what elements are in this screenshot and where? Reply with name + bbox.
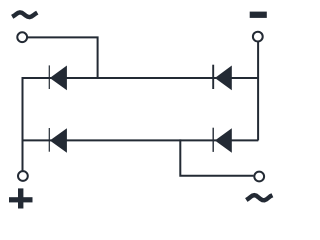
wire minus terminal down to bottom rail [257,42,259,141]
label - (negative output, top-right) [250,12,267,18]
diode D3 cathode bar [48,128,50,152]
terminal minus circle [253,32,263,42]
label ~ (AC input 1, top-left) [12,12,37,17]
diode D4 cathode bar [212,128,214,152]
terminal AC2 circle [254,172,264,182]
wire top rail [22,77,259,79]
diode D1 (top-left) triangle [50,66,67,91]
wire AC1 lead to top rail [27,37,97,78]
diode D4 (bottom-right) triangle [215,128,232,153]
wire AC2 lead from bottom rail [180,139,253,175]
diode D1 cathode bar [48,65,50,89]
diode D2 cathode bar [212,65,214,89]
diode D3 (bottom-left) triangle [50,128,67,153]
diode D2 (top-right) triangle [215,66,232,91]
label + (positive output, bottom-left) [9,188,33,208]
terminal AC1 circle [17,32,27,42]
label ~ (AC input 2, bottom-right) [246,195,272,200]
terminal plus circle [18,171,28,181]
wire bottom rail [22,139,259,141]
wire left vertical to plus terminal [22,77,24,171]
